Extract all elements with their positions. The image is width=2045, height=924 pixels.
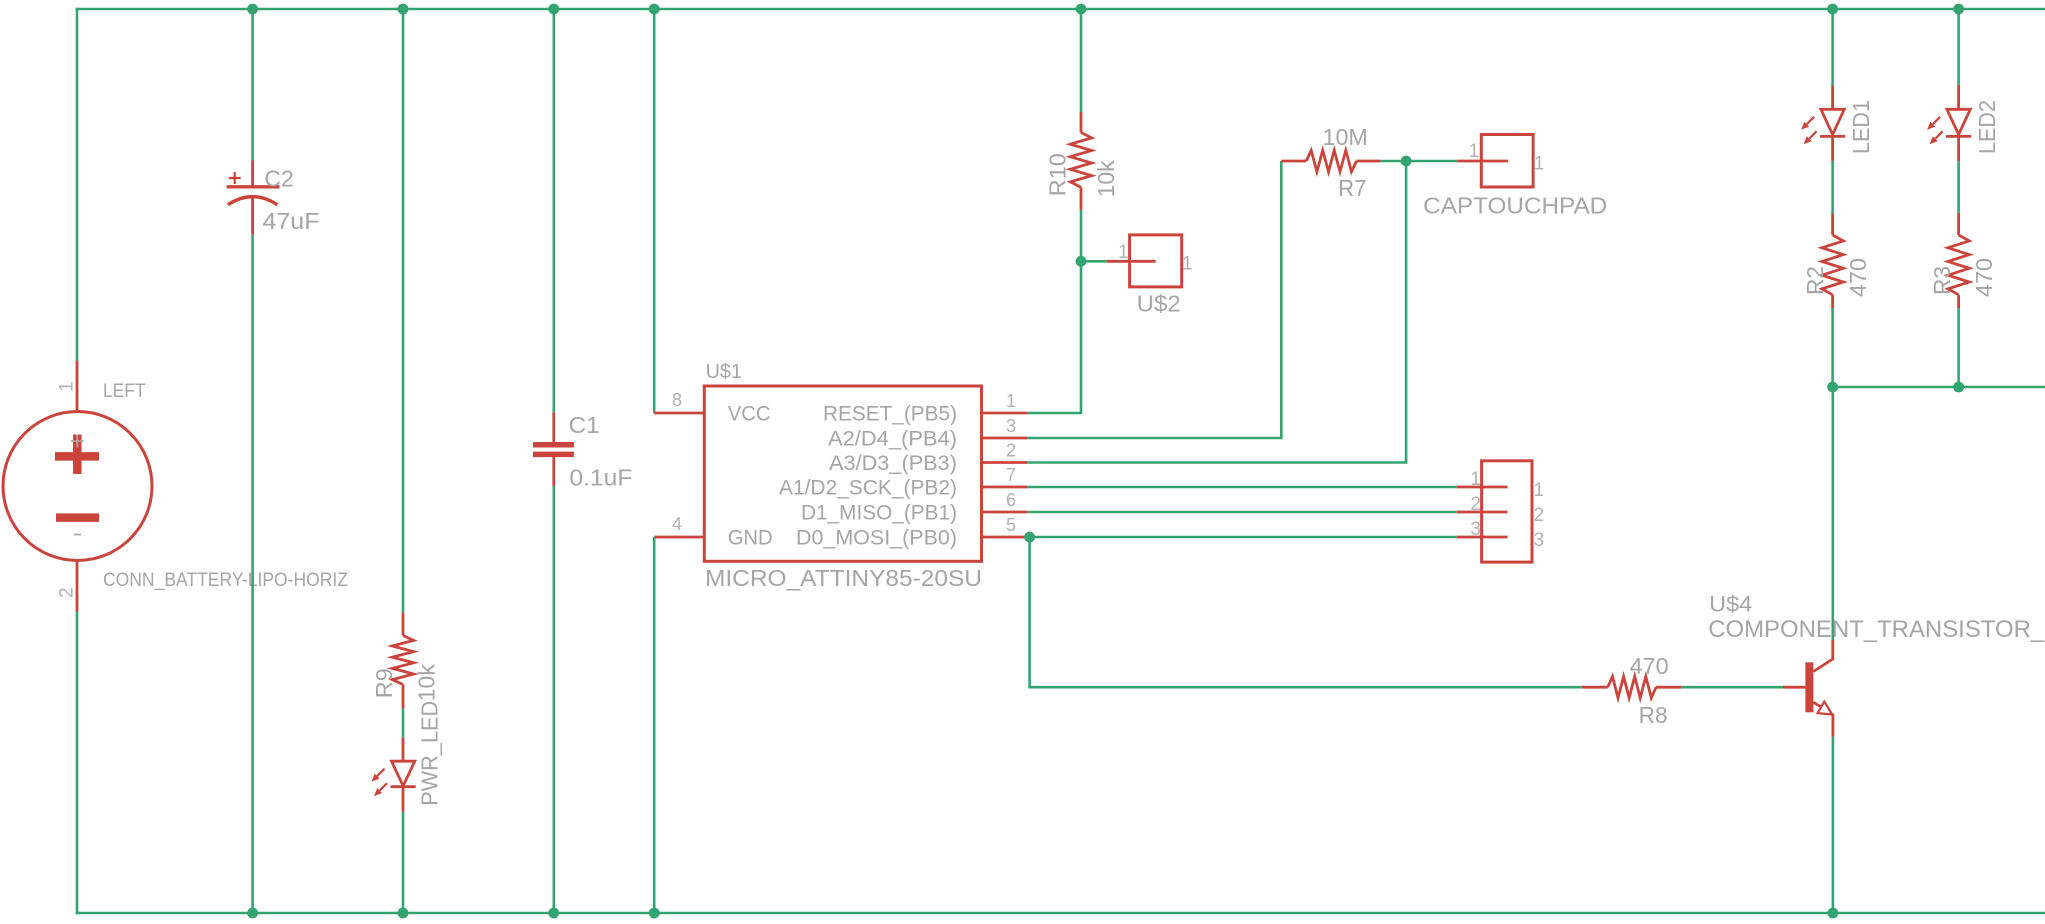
svg-text:PWR_LED: PWR_LED: [417, 701, 443, 806]
resistor R2 bottom lead: [1831, 295, 1834, 308]
transistor U$4 base lead: [1783, 686, 1805, 689]
svg-text:A3/D3_(PB3): A3/D3_(PB3): [829, 452, 957, 475]
resistor R9 bottom lead: [402, 685, 405, 709]
battery plus symbol: [55, 435, 99, 475]
CAPTOUCHPAD body box: [1481, 135, 1533, 188]
junction: top rail x=403: [398, 4, 409, 15]
resistor R3 top lead: [1957, 214, 1960, 236]
resistor R10 bottom lead: [1080, 187, 1083, 210]
svg-text:1: 1: [1470, 469, 1481, 490]
wire: IC pin 3 net: [1028, 161, 1282, 438]
LED LED1 anode lead: [1831, 86, 1834, 110]
wire: LED2 top column: [1957, 9, 1960, 86]
capacitor C2 top plate: [227, 185, 280, 188]
wire: R3 bottom column: [1957, 308, 1960, 387]
junction: top rail x=1081: [1076, 4, 1087, 15]
resistor R10 top lead: [1080, 112, 1083, 133]
wire: R10 to IC pin 1: [1028, 210, 1081, 413]
transistor U$4 collector: [1813, 640, 1832, 672]
IC U$1 pin 7 stub: [982, 486, 1028, 489]
svg-text:2: 2: [1470, 494, 1481, 515]
svg-text:8: 8: [672, 390, 682, 410]
svg-text:U$1: U$1: [706, 361, 742, 383]
wire: VCC pin column: [653, 9, 656, 413]
svg-text:2: 2: [1006, 441, 1016, 461]
wire: emitter to GND rail: [1832, 737, 1835, 915]
wire: IC pin 6 net: [1028, 511, 1457, 514]
wire: R9 to PWR_LED: [402, 709, 405, 738]
IC U$1 body box: [704, 386, 981, 561]
svg-text:1: 1: [1118, 242, 1129, 263]
wire: LED1 to resistor: [1831, 161, 1834, 213]
svg-text:R9: R9: [371, 668, 397, 698]
wire: IC pin 7 net: [1028, 486, 1457, 489]
transistor U$4 emitter lead: [1832, 714, 1835, 737]
connector pin 2 lead: [1457, 511, 1508, 514]
resistor R9 top lead: [402, 613, 405, 636]
svg-text:470: 470: [1971, 258, 1997, 297]
CAPTOUCHPAD pin 1 lead: [1457, 160, 1508, 163]
svg-text:10k: 10k: [414, 664, 440, 701]
svg-text:1: 1: [1469, 141, 1480, 162]
resistor R2 top lead: [1831, 214, 1834, 236]
capacitor C1 bottom plate: [533, 452, 574, 458]
wire: bottom GND rail: [76, 912, 2045, 915]
junction: RESET net at R10 column: [1076, 256, 1087, 267]
resistor R9 zigzag: [392, 636, 413, 685]
resistor R10 zigzag: [1070, 133, 1091, 188]
LED LED1 cathode bar: [1820, 135, 1845, 138]
LED PWR_LED triangle: [392, 761, 415, 786]
wire: collector to LED rail: [1832, 387, 1835, 640]
svg-text:1: 1: [1534, 480, 1545, 501]
IC U$1 pin 5 stub: [982, 536, 1028, 539]
junction: bottom rail x=654.2: [649, 908, 660, 919]
svg-text:LED2: LED2: [1974, 100, 2000, 154]
capacitor C2 bottom plate (polarized arc): [228, 197, 278, 205]
svg-text:R7: R7: [1338, 175, 1366, 201]
resistor R7 zigzag: [1306, 150, 1356, 171]
junction: MOSI net at IC pin 5: [1024, 532, 1035, 543]
svg-text:U$4: U$4: [1709, 592, 1752, 617]
svg-text:7: 7: [1006, 465, 1016, 485]
svg-text:VCC: VCC: [728, 403, 771, 426]
wire: captouch net to IC pin 2: [1028, 161, 1406, 463]
svg-text:470: 470: [1845, 258, 1871, 297]
IC U$1 pin 1 stub: [982, 412, 1028, 415]
resistor R3 bottom lead: [1957, 295, 1960, 308]
svg-text:2: 2: [1534, 505, 1545, 526]
svg-text:LED1: LED1: [1848, 100, 1874, 154]
battery minus symbol: [56, 513, 99, 522]
resistor R8 zigzag: [1608, 677, 1656, 698]
IC U$1 pin 4 stub: [654, 536, 705, 539]
svg-text:COMPONENT_TRANSISTOR_: COMPONENT_TRANSISTOR_: [1708, 616, 2045, 643]
svg-text:C2: C2: [264, 166, 293, 192]
svg-text:6: 6: [1006, 490, 1016, 510]
capacitor C1 bottom lead: [552, 455, 555, 486]
capacitor C2 bottom lead: [251, 196, 254, 235]
IC U$1 pin 3 stub: [982, 437, 1028, 440]
svg-text:LEFT: LEFT: [103, 381, 146, 402]
LED PWR_LED anode lead: [402, 738, 405, 762]
U$2 pin 1 lead: [1107, 260, 1156, 263]
wire: R7 to CAPTOUCHPAD: [1381, 160, 1458, 163]
wire: C1 top column: [552, 9, 555, 412]
IC U$1 pin 2 stub: [982, 461, 1028, 464]
svg-text:CAPTOUCHPAD: CAPTOUCHPAD: [1423, 193, 1607, 219]
LED PWR_LED arrows: [377, 769, 384, 776]
resistor R7 right lead: [1357, 160, 1381, 163]
transistor U$4 emitter: [1813, 702, 1821, 707]
svg-text:1: 1: [1534, 154, 1545, 175]
LED LED2 arrows: [1933, 117, 1940, 124]
LED PWR_LED cathode bar: [391, 785, 416, 788]
svg-text:470: 470: [1630, 653, 1669, 679]
svg-text:C1: C1: [569, 412, 600, 438]
svg-text:1: 1: [1006, 391, 1016, 411]
junction: bottom rail x=1832.9: [1828, 908, 1839, 919]
junction: bottom rail x=252.6: [247, 908, 258, 919]
junction: top rail x=252.6: [247, 4, 258, 15]
battery pin 1 lead: [76, 361, 79, 412]
svg-text:R10: R10: [1045, 153, 1071, 196]
junction: top rail x=1832.6: [1827, 4, 1838, 15]
wire: C2 top column: [251, 9, 254, 161]
LED PWR_LED cathode lead: [402, 787, 405, 812]
svg-text:3: 3: [1470, 519, 1481, 540]
wire: R8 to transistor base: [1682, 686, 1783, 689]
capacitor C2 plus mark: [229, 172, 241, 184]
wire: R10 top column: [1080, 9, 1083, 112]
IC U$1 pin 8 stub: [654, 412, 705, 415]
svg-text:3: 3: [1006, 416, 1016, 436]
svg-text:RESET_(PB5): RESET_(PB5): [823, 403, 957, 426]
connector body box: [1482, 461, 1532, 562]
svg-text:A2/D4_(PB4): A2/D4_(PB4): [828, 428, 957, 451]
wire: C2 bottom column: [251, 235, 254, 913]
wire: LED rail: [1833, 386, 2045, 389]
capacitor C2 top lead: [251, 161, 254, 188]
capacitor C1 top plate: [533, 442, 574, 448]
wire: LED1 top column: [1831, 9, 1834, 86]
svg-text:R3: R3: [1929, 266, 1955, 295]
svg-text:4: 4: [672, 514, 682, 534]
battery CONN_BATTERY-LIPO-HORIZ circle: [3, 412, 152, 561]
resistor R8 left lead: [1582, 686, 1608, 689]
junction: captouch net: [1401, 156, 1412, 167]
wire: R9 bottom column: [402, 812, 405, 913]
svg-text:U$2: U$2: [1137, 290, 1181, 316]
U$2 body box: [1130, 235, 1182, 287]
wire: MOSI net to R8: [1030, 537, 1582, 687]
junction: top rail x=553.8: [548, 4, 559, 15]
capacitor C1 top lead: [552, 412, 555, 444]
junction: bottom rail x=403: [398, 908, 409, 919]
resistor R8 right lead: [1656, 686, 1682, 689]
svg-text:1: 1: [57, 381, 78, 392]
resistor R2 zigzag: [1822, 235, 1843, 295]
transistor U$4 base bar: [1805, 662, 1813, 712]
LED LED2 triangle: [1947, 109, 1970, 134]
junction: top rail x=654.2: [649, 4, 660, 15]
svg-text:GND: GND: [728, 527, 773, 550]
svg-text:D1_MISO_(PB1): D1_MISO_(PB1): [801, 502, 957, 525]
LED LED1 triangle: [1821, 109, 1844, 134]
connector pin 1 lead: [1457, 486, 1508, 489]
wire: GND pin column: [653, 537, 656, 913]
junction: bottom rail x=553.8: [548, 908, 559, 919]
svg-text:3: 3: [1534, 530, 1545, 551]
junction: LED rail at LED1: [1827, 382, 1838, 393]
wire: battery top column: [76, 8, 79, 361]
junction: top rail x=1958.6: [1953, 4, 1964, 15]
svg-text:47uF: 47uF: [263, 208, 320, 234]
LED LED2 cathode lead: [1957, 136, 1960, 161]
svg-text:MICRO_ATTINY85-20SU: MICRO_ATTINY85-20SU: [705, 565, 982, 591]
LED LED2 cathode bar: [1946, 135, 1971, 138]
wire: LED2 to resistor: [1957, 161, 1960, 213]
svg-text:2: 2: [57, 587, 78, 598]
svg-text:CONN_BATTERY-LIPO-HORIZ: CONN_BATTERY-LIPO-HORIZ: [103, 570, 348, 591]
connector pin 3 lead: [1457, 536, 1508, 539]
LED LED1 cathode lead: [1831, 136, 1834, 161]
svg-text:5: 5: [1006, 515, 1016, 535]
svg-text:R2: R2: [1802, 266, 1828, 295]
svg-text:10M: 10M: [1323, 124, 1368, 150]
svg-text:1: 1: [1182, 254, 1193, 275]
svg-text:10k: 10k: [1093, 160, 1119, 197]
svg-text:A1/D2_SCK_(PB2): A1/D2_SCK_(PB2): [779, 477, 957, 500]
wire: R2 bottom column: [1831, 308, 1834, 387]
wire: top VCC rail: [76, 8, 2045, 11]
junction: LED rail at LED2: [1953, 382, 1964, 393]
battery pin 2 lead: [76, 561, 79, 612]
wire: C1 bottom column: [552, 486, 555, 913]
LED LED2 anode lead: [1957, 86, 1960, 110]
wire: IC pin 5 net: [1028, 536, 1457, 539]
svg-text:R8: R8: [1639, 702, 1668, 728]
wire: battery bottom column: [76, 612, 79, 915]
battery pin - small mark: [74, 534, 81, 536]
battery pin + small mark: [71, 435, 84, 448]
resistor R7 left lead: [1281, 160, 1306, 163]
wire: RESET net to U$2: [1081, 260, 1107, 263]
LED LED1 arrows: [1807, 117, 1814, 124]
transistor U$4 emitter arrowhead: [1818, 702, 1833, 715]
svg-text:0.1uF: 0.1uF: [569, 465, 632, 491]
resistor R3 zigzag: [1948, 235, 1969, 295]
svg-text:D0_MOSI_(PB0): D0_MOSI_(PB0): [796, 527, 957, 550]
IC U$1 pin 6 stub: [982, 511, 1028, 514]
wire: R9 top column: [402, 9, 405, 613]
